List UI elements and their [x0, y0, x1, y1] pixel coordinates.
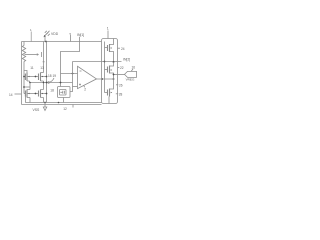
svg-text:VDD: VDD: [51, 32, 59, 36]
svg-text:28: 28: [119, 92, 123, 96]
resistor R11: [22, 46, 25, 54]
svg-text:IN[2]: IN[2]: [123, 57, 130, 61]
VDD power symbol: [44, 31, 50, 42]
wire VREG branch: [113, 74, 125, 76]
svg-text:5: 5: [70, 32, 72, 36]
wire VDD rail: [22, 41, 102, 43]
gate bus inside block: [104, 42, 106, 93]
feedback block 18: [58, 87, 71, 98]
svg-text:13: 13: [40, 66, 44, 70]
svg-text:18: 18: [50, 88, 54, 92]
wire feedback top: [73, 61, 105, 63]
svg-text:12: 12: [63, 107, 67, 111]
transistor Q28: [105, 79, 114, 104]
terminal 16 VREG: [125, 71, 137, 77]
svg-text:14: 14: [9, 93, 13, 97]
svg-text:VSS: VSS: [33, 108, 41, 112]
wire op-amp output: [97, 78, 115, 80]
pin tick: [72, 105, 74, 108]
op-amp U2 triangle: [78, 66, 97, 88]
wire outer left boundary: [21, 42, 23, 105]
wire lower boundary line: [22, 104, 102, 106]
wire resistor branch: [23, 42, 25, 94]
resistor R12: [22, 54, 25, 62]
wire drain drop with tick: [43, 42, 45, 73]
svg-text:24: 24: [121, 47, 125, 51]
node IN[2]: [105, 61, 122, 63]
wire VDD drop right: [46, 42, 48, 103]
wire to op-amp minus input: [61, 73, 78, 75]
tap arrow to gate bar: [25, 52, 42, 57]
transistor Q22: [105, 62, 114, 79]
wire block to rail: [63, 98, 65, 103]
wire bottom rail: [25, 97, 101, 104]
svg-text:22: 22: [120, 66, 124, 70]
wire mid bus: [30, 82, 73, 84]
wire feedback vertical: [70, 62, 73, 92]
svg-text:19: 19: [53, 74, 57, 78]
svg-text:18: 18: [48, 74, 52, 78]
svg-text:IN[1]: IN[1]: [77, 33, 84, 37]
svg-text:26: 26: [119, 83, 123, 87]
transistor Q12: [39, 82, 48, 103]
transistor Q14: [23, 82, 38, 103]
svg-text:11: 11: [30, 66, 34, 70]
svg-text:1: 1: [30, 28, 32, 32]
pin tick 5 on rail: [70, 35, 72, 42]
op-amp plus input stub: [73, 86, 78, 88]
svg-text:2: 2: [84, 88, 86, 92]
transistor Q24: [105, 39, 114, 63]
svg-text:16: 16: [132, 65, 136, 69]
numeral 1 leader on rail: [30, 32, 32, 42]
VSS arrow: [43, 103, 47, 111]
output block box 1: [102, 39, 118, 104]
wire IN[1] lead: [61, 37, 80, 87]
svg-text:VREG: VREG: [126, 78, 135, 82]
transistor Q13: [39, 73, 48, 83]
transistor Q11: [23, 71, 38, 83]
svg-text:1: 1: [107, 27, 109, 31]
